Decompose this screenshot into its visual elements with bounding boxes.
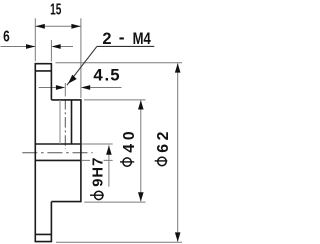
svg-text:-: - (119, 27, 125, 47)
svg-text:4: 4 (93, 66, 103, 85)
svg-text:5: 5 (110, 66, 119, 85)
svg-text:62: 62 (155, 128, 172, 153)
svg-text:.: . (105, 66, 110, 85)
svg-text:9H7: 9H7 (91, 157, 107, 187)
svg-text:2: 2 (102, 30, 111, 48)
svg-text:40: 40 (121, 128, 138, 153)
svg-text:15: 15 (50, 2, 61, 19)
svg-text:6: 6 (3, 29, 10, 46)
svg-text:M4: M4 (133, 30, 152, 48)
